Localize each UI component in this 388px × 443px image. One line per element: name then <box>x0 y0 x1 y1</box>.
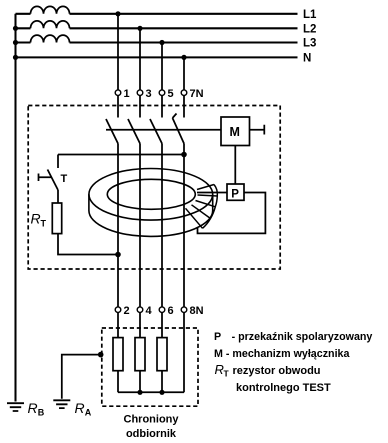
svg-text:- przekaźnik spolaryzowany: - przekaźnik spolaryzowany <box>232 331 373 343</box>
secondary winding on toroid <box>186 185 218 229</box>
wire pole 1 through toroid <box>117 144 119 307</box>
terminal 8N <box>181 305 203 317</box>
wire switch to resistor RT <box>57 190 59 203</box>
wire P return loop to winding <box>198 193 266 234</box>
wire pole 3 through toroid <box>161 144 163 307</box>
node RA load connection <box>98 352 104 358</box>
svg-text:odbiornik: odbiornik <box>126 428 177 440</box>
wire resistor 1 to bus <box>117 371 119 393</box>
svg-text:L1: L1 <box>303 9 317 21</box>
wire RT to L1 <box>58 234 118 255</box>
load enclosure dashed box <box>102 328 198 406</box>
svg-text:M - mechanizm wyłącznika: M - mechanizm wyłącznika <box>214 348 350 360</box>
svg-text:rezystor obwodu: rezystor obwodu <box>233 365 321 377</box>
wire drop L3 to terminal 5 <box>161 43 163 90</box>
wire test line down to switch <box>57 155 59 169</box>
svg-text:2: 2 <box>124 305 130 317</box>
wire terminal 4 to load <box>139 313 141 338</box>
contact blade pole 2 <box>128 119 140 144</box>
wire terminal 2 to load <box>117 313 119 338</box>
svg-text:8N: 8N <box>190 305 204 317</box>
svg-text:P: P <box>214 331 221 343</box>
node star N <box>13 55 18 60</box>
load resistor phase 2 <box>135 338 145 371</box>
label RT <box>31 211 47 229</box>
inductor winding L3 <box>31 35 70 42</box>
wire resistor 2 to bus <box>139 371 141 393</box>
inductor winding L1 <box>31 6 70 13</box>
test switch T blade <box>48 170 59 191</box>
legend line P <box>214 331 372 343</box>
mechanical linkage to M <box>106 129 221 131</box>
contact blade pole 1 <box>106 119 118 144</box>
wire terminal 1 to contact <box>117 96 119 118</box>
wire winding to P <box>197 192 227 194</box>
svg-text:T: T <box>224 369 230 379</box>
svg-text:L2: L2 <box>303 24 316 36</box>
svg-text:4: 4 <box>146 305 153 317</box>
node test L1 junction <box>115 252 121 258</box>
contact blade pole 3 <box>150 119 162 144</box>
node star L3 <box>13 40 18 45</box>
toroid core side wall <box>89 194 213 236</box>
wire pole 2 through toroid <box>139 144 141 307</box>
contact blade pole 4 <box>173 114 185 144</box>
terminal 6 <box>159 305 173 317</box>
breaker mechanism box M <box>221 117 250 146</box>
node bus 6 <box>159 390 164 395</box>
terminal 2 <box>115 305 129 317</box>
wire L3 <box>16 41 298 43</box>
node bus 4 <box>137 390 142 395</box>
legend line M <box>214 348 350 360</box>
wire star point to earth RB <box>14 14 16 402</box>
wire terminal 6 to load <box>161 313 163 338</box>
svg-text:T: T <box>61 173 68 185</box>
test button actuator <box>39 174 52 182</box>
wire test line from N <box>58 154 184 156</box>
label Chroniony odbiornik <box>124 414 180 441</box>
svg-text:6: 6 <box>168 305 174 317</box>
svg-text:R: R <box>215 362 224 377</box>
wire drop L1 to terminal 1 <box>117 14 119 90</box>
wire M to P <box>234 146 236 185</box>
svg-text:R: R <box>28 400 38 416</box>
node N tap <box>181 55 186 60</box>
resistor RT <box>52 203 61 234</box>
legend line RT <box>215 362 321 379</box>
toroid core inner ellipse <box>107 179 195 209</box>
manual operator wire <box>250 125 265 135</box>
wire terminal 5 to contact <box>161 96 163 118</box>
wire pole 4 through toroid <box>183 144 185 307</box>
ground symbol RB <box>7 403 24 411</box>
svg-text:3: 3 <box>146 88 152 100</box>
svg-text:M: M <box>230 125 240 139</box>
inductor winding L2 <box>31 21 70 28</box>
wire terminal 7N to contact <box>183 96 185 118</box>
legend line kontrolnego TEST <box>236 382 331 394</box>
wire terminal 8N to load bus <box>183 313 185 393</box>
wire L2 <box>16 27 298 29</box>
terminal 7N <box>181 88 203 100</box>
wire terminal 3 to contact <box>139 96 141 118</box>
terminal 3 <box>137 88 151 100</box>
terminal 5 <box>159 88 173 100</box>
wire L1 <box>16 13 298 15</box>
terminal 4 <box>137 305 152 317</box>
node L1 tap <box>115 11 120 16</box>
svg-text:A: A <box>85 408 92 418</box>
label RA <box>75 400 92 418</box>
svg-text:L3: L3 <box>303 38 316 50</box>
polarized relay box P <box>227 184 244 200</box>
load resistor phase 3 <box>157 338 167 371</box>
wire load neutral bus <box>118 391 184 393</box>
load resistor phase 1 <box>113 338 123 371</box>
wire drop L2 to terminal 3 <box>139 28 141 90</box>
label RB <box>28 400 45 418</box>
node star L2 <box>13 26 18 31</box>
node L3 tap <box>159 40 164 45</box>
terminal 1 <box>115 88 129 100</box>
ground symbol RA <box>53 400 70 408</box>
node test N junction <box>181 152 187 158</box>
wire N <box>16 56 298 58</box>
svg-text:1: 1 <box>124 88 130 100</box>
svg-text:kontrolnego TEST: kontrolnego TEST <box>236 382 331 394</box>
wire RA earth to load <box>62 355 100 399</box>
svg-text:P: P <box>231 188 239 200</box>
wire resistor 3 to bus <box>161 371 163 393</box>
node L2 tap <box>137 26 142 31</box>
RCD enclosure dashed box <box>28 106 280 270</box>
svg-text:B: B <box>38 408 45 418</box>
svg-text:R: R <box>75 400 85 416</box>
svg-text:R: R <box>31 211 41 227</box>
svg-text:7N: 7N <box>190 88 204 100</box>
svg-text:N: N <box>303 53 311 65</box>
svg-text:5: 5 <box>168 88 174 100</box>
svg-text:Chroniony: Chroniony <box>124 414 180 426</box>
svg-text:T: T <box>41 219 47 229</box>
toroid core outer ellipse <box>89 169 213 221</box>
wire drop N to terminal 7N <box>183 57 185 90</box>
